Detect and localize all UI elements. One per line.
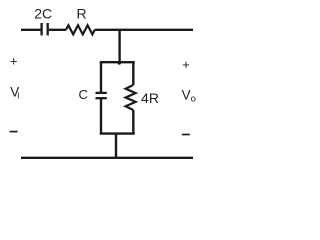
svg-text:i: i bbox=[17, 90, 19, 101]
svg-text:+: + bbox=[10, 54, 18, 69]
resistor 4R bbox=[126, 85, 136, 110]
label - (Vi negative terminal) bbox=[10, 131, 18, 133]
wire: top-left from Vi+ terminal to capacitor 2C bbox=[21, 29, 41, 31]
wire: right branch lower (resistor 4R to bottom bar) bbox=[132, 110, 134, 134]
resistor R bbox=[66, 25, 95, 34]
wire: left branch lower (capacitor C to bottom bar) bbox=[100, 98, 102, 133]
svg-text:V: V bbox=[182, 87, 191, 102]
capacitor C bbox=[96, 93, 107, 98]
wire: bottom rail from Vi- terminal to Vo- terminal bbox=[21, 157, 193, 159]
wire: parallel block top bar bbox=[100, 61, 135, 63]
wire: capacitor 2C to resistor R bbox=[49, 29, 66, 31]
svg-text:C: C bbox=[79, 87, 88, 102]
svg-text:4R: 4R bbox=[141, 90, 159, 106]
svg-text:2C: 2C bbox=[34, 5, 52, 21]
wire: right branch upper (top bar to resistor 4R) bbox=[132, 62, 134, 85]
svg-text:o: o bbox=[191, 94, 196, 105]
wire: vertical from bottom bar down to bottom rail bbox=[115, 134, 117, 158]
svg-text:R: R bbox=[77, 5, 87, 21]
capacitor 2C bbox=[42, 23, 48, 35]
svg-text:+: + bbox=[182, 57, 190, 72]
wire: resistor R to top-right end (Vo+ side) bbox=[95, 29, 193, 31]
label - (Vo negative terminal) bbox=[182, 134, 190, 136]
wire: vertical drop from top rail to parallel block bbox=[118, 30, 120, 62]
wire: parallel block bottom bar bbox=[100, 132, 135, 134]
wire: left branch upper (top bar to capacitor C) bbox=[100, 62, 102, 93]
junction dot bbox=[117, 61, 121, 65]
